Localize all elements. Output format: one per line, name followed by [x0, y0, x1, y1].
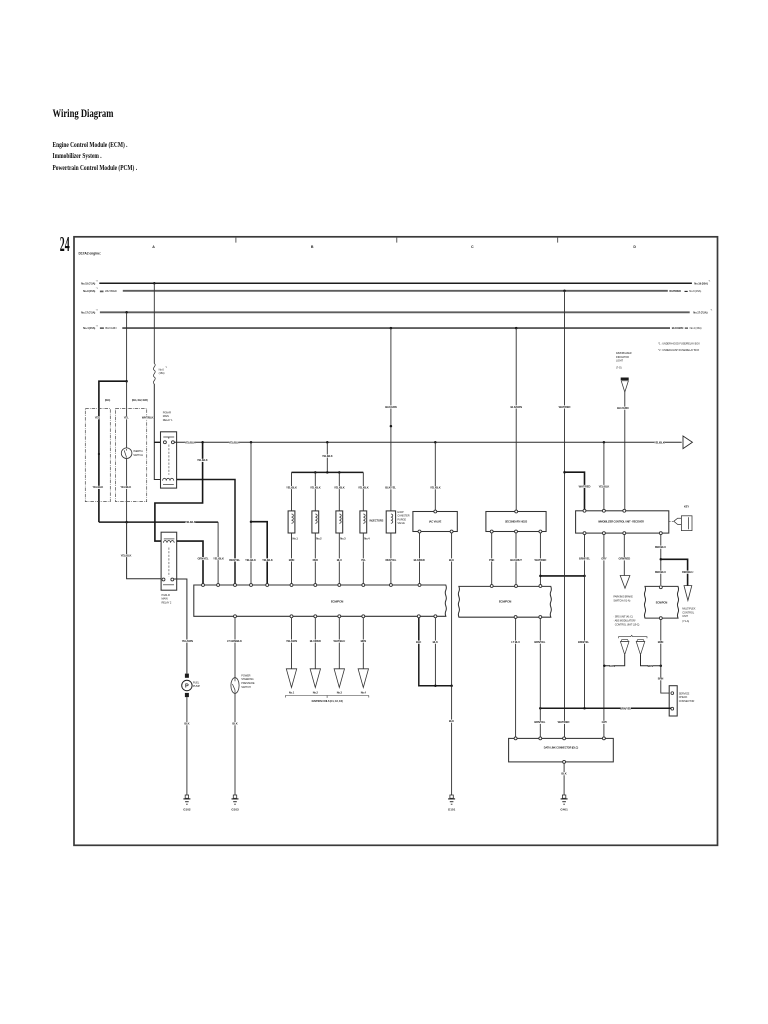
svg-text:*2 : UNDER-DASH FUSE/RELAY B: *2 : UNDER-DASH FUSE/RELAY BOX [658, 348, 699, 352]
svg-text:PGM-FI: PGM-FI [162, 593, 171, 597]
wire label YEL/BLK on y522 [185, 521, 195, 524]
svg-text:BRN: BRN [289, 558, 295, 562]
junction x564 y472 [563, 471, 566, 474]
svg-text:STEERING: STEERING [241, 677, 253, 681]
fuel pump connector bottom [185, 693, 189, 697]
wire DLC to ground [563, 763, 565, 795]
wire color RED inj No.2 [313, 558, 317, 561]
wire ECM1 to ignition coil No.2 [314, 618, 316, 669]
wire tee to relay1 contact [154, 441, 163, 443]
wire color YEL inj No.4 [361, 558, 365, 561]
wire color BLU inj No.3 [337, 558, 341, 561]
ECM3 top pin [659, 586, 662, 589]
wire color RED/BLU b [683, 571, 693, 574]
wire color RED/YEL [230, 558, 240, 561]
indicator connector bar [621, 378, 629, 381]
wire corner left thick [99, 381, 127, 522]
wire color BLK/RED [414, 558, 424, 561]
ECM1 top pin 7 [314, 584, 317, 587]
wire main YEL/BLK line [174, 441, 681, 443]
immo pin bottom 2 [602, 532, 605, 535]
SRS arrow connector [621, 640, 628, 642]
svg-text:SWITCH: SWITCH [241, 685, 251, 689]
wire x251 down to ECM [250, 442, 252, 584]
DLC pin 1 [514, 737, 517, 740]
svg-text:RED: RED [313, 558, 318, 562]
wire HO2S out BLK/WHT [515, 533, 517, 585]
wire bus3 down to corner [126, 312, 128, 381]
svg-text:YEL/BLK: YEL/BLK [121, 553, 132, 557]
wire thick splice to relay2 coil [155, 442, 203, 541]
ECM1 top pin 6 [290, 584, 293, 587]
junction inertia y522 [125, 521, 128, 524]
bus line No.9 WHT/RED [123, 290, 668, 292]
svg-text:PURGE: PURGE [397, 517, 406, 521]
svg-text:INJECTORS: INJECTORS [370, 519, 384, 523]
svg-text:YEL/BLK: YEL/BLK [229, 440, 240, 444]
wire color YEL/BLK x218 [213, 557, 223, 560]
svg-text:Wiring Diagram: Wiring Diagram [53, 108, 114, 120]
svg-text:MAIN: MAIN [162, 597, 168, 601]
svg-text:BRN/YEL: BRN/YEL [579, 557, 590, 561]
svg-text:RED/BLU: RED/BLU [682, 570, 693, 574]
svg-text:MULTIPLEX: MULTIPLEX [682, 607, 695, 611]
wire indicator down [624, 392, 626, 509]
ECM/PCM box 2 [458, 586, 551, 617]
wire color YEL/BLK x251 [245, 558, 255, 561]
service check pin 2 [671, 707, 674, 710]
wire color BRN/YEL immo 2 [578, 641, 588, 644]
svg-text:No.2: No.2 [313, 691, 319, 695]
svg-text:D: D [633, 245, 636, 249]
junction main x202.6 [201, 441, 204, 444]
svg-text:BLU/RED: BLU/RED [310, 639, 321, 643]
ECM3 bottom pin [659, 617, 662, 620]
section tick 3 [557, 238, 559, 243]
svg-text:BLK/GRN: BLK/GRN [510, 405, 522, 409]
wire color YEL/BLK x126 [121, 554, 131, 557]
wire ECM1 to ignition coil No.3 [338, 618, 340, 669]
injector No.4 coil [363, 514, 365, 523]
ECM1 top pin 11 [418, 584, 421, 587]
inertia switch lever [124, 449, 126, 458]
wire color BRN 2 [658, 677, 662, 680]
svg-text:RED/YEL: RED/YEL [229, 558, 240, 562]
svg-text:B: B [311, 245, 314, 249]
ignition coil No.2 arrow [310, 669, 320, 688]
svg-text:BLK/WHT: BLK/WHT [510, 558, 522, 562]
svg-text:No.4 (15A): No.4 (15A) [83, 326, 95, 330]
IAC pin bottom left [418, 530, 421, 533]
svg-text:INERTIA: INERTIA [133, 449, 143, 453]
svg-text:GRY: GRY [602, 720, 608, 724]
wire color YEL/GRN [286, 640, 296, 643]
junction splice right [583, 575, 586, 578]
inertia switch circle [121, 448, 132, 459]
svg-text:YEL: YEL [361, 558, 366, 562]
ECM1 top pin 8 [338, 584, 341, 587]
IAC pin top [434, 510, 437, 513]
ECM2 bottom pin 1 [514, 616, 517, 619]
wire color YEL/BLK inj No.4 [358, 486, 368, 489]
svg-text:WHT/RED: WHT/RED [559, 405, 571, 409]
DLC pin bottom [563, 760, 566, 763]
svg-text:YEL: YEL [95, 416, 100, 420]
relay2 coil [163, 541, 174, 543]
wire color YEL/BLK inj No.1 [286, 486, 296, 489]
PSP switch ellipse [231, 678, 239, 694]
svg-text:LT GRN/BLK: LT GRN/BLK [227, 639, 242, 643]
injector No.3 coil [339, 514, 341, 523]
key symbol inner [688, 517, 690, 529]
junction BLK merge 2 [450, 685, 453, 688]
svg-text:ECM/PCM: ECM/PCM [331, 599, 344, 603]
svg-text:RED/YEL: RED/YEL [385, 558, 396, 562]
wire evap out [390, 533, 392, 584]
relay1 dashed link [168, 445, 170, 475]
svg-text:YEL/BLK: YEL/BLK [358, 485, 369, 489]
injector No.2 box [312, 511, 319, 533]
wire y522 drop to ECM pin 2 [217, 522, 219, 584]
junction bus2 x564.5 [563, 290, 566, 293]
junction bus4 x390.9 [390, 327, 393, 330]
ECM2 top pin 1 [490, 585, 493, 588]
svg-text:· ABS MODULATOR/: · ABS MODULATOR/ [613, 620, 635, 623]
svg-text:*1 : UNDER-HOOD FUSE/RELAY B: *1 : UNDER-HOOD FUSE/RELAY BOX [658, 341, 700, 345]
wire relay2 contact to fuel pump [174, 579, 187, 674]
relay1 contact bar [163, 437, 174, 439]
svg-text:ECM/PCM: ECM/PCM [499, 599, 512, 603]
bus line No.15 hot in ON [99, 282, 692, 284]
svg-text:YEL/BLK: YEL/BLK [262, 558, 273, 562]
wire GRN/RED to parking brake [623, 535, 625, 576]
wire color LT GRN/BLK [227, 640, 242, 643]
immo pin top 1 [583, 509, 586, 512]
svg-text:WHT/BLK: WHT/BLK [142, 416, 154, 420]
svg-text:No.17 (7.5A): No.17 (7.5A) [81, 310, 95, 314]
wire color YEL/GRN [182, 640, 192, 643]
ignition coil No.4 arrow [358, 669, 368, 688]
ECM1 top pin 1 [202, 584, 205, 587]
injector No.1 box [288, 511, 295, 533]
ignition coil No.1 arrow [286, 669, 296, 688]
fuel pump connector top [185, 674, 189, 678]
wire color BLK fuel pump [185, 722, 189, 725]
svg-text:BLU: BLU [337, 558, 342, 562]
wire color YEL/BLK x267 [262, 558, 272, 561]
ignition coil No.3 arrow [334, 669, 344, 688]
svg-text:(Y1-A): (Y1-A) [682, 619, 689, 623]
wire color GRN [610, 665, 614, 668]
wire ECM1 BLK b [434, 618, 436, 686]
svg-text:WHT/RED: WHT/RED [535, 558, 547, 562]
DLC pin 2 [539, 737, 542, 740]
svg-text:RED/BLU: RED/BLU [655, 545, 666, 549]
svg-text:No.4: No.4 [364, 536, 370, 540]
wire color PNK [490, 558, 494, 561]
wire color GRN/YEL [198, 557, 208, 560]
wire label YEL/BLK main 1 [185, 441, 195, 444]
wire color BRN inj No.1 [289, 558, 293, 561]
svg-text:MAIN: MAIN [163, 414, 169, 418]
junction main x327.3 [326, 441, 329, 444]
wire label YEL/BLK main 3 [654, 441, 664, 444]
junction BRN/YEL a [539, 707, 542, 710]
wire color BLU/RED [310, 640, 320, 643]
wire label BRN/YEL on horizontal [621, 707, 631, 710]
wire evap down [390, 328, 392, 511]
wire horizontal y522 [99, 521, 218, 523]
junction bus1 x154.3 [153, 282, 156, 285]
junction splice left [539, 575, 542, 578]
wire color YEL box2 [124, 416, 128, 419]
wire splice thick to x267 [251, 522, 267, 585]
svg-text:BLK/GRN: BLK/GRN [105, 326, 116, 330]
SRS ABS bracket [619, 635, 648, 638]
wire ECM1 to ignition coil No.4 [362, 618, 364, 669]
svg-text:CHECK: CHECK [679, 695, 688, 699]
ECM1 top pin 9 [362, 584, 365, 587]
svg-text:IGNITION COILS (C1, C2, C3): IGNITION COILS (C1, C2, C3) [312, 700, 343, 703]
wire color BRN [361, 640, 365, 643]
junction T-bar b [326, 471, 329, 474]
wire x327 down to T-bar [326, 442, 328, 472]
wire color BLK PSP [233, 722, 237, 725]
svg-text:YEL/BLK: YEL/BLK [197, 458, 208, 462]
svg-text:BRN/YEL: BRN/YEL [534, 640, 545, 644]
svg-text:BLK: BLK [449, 719, 454, 723]
wire injector feed No.1 [291, 472, 293, 511]
wire color RED/BLU [655, 546, 665, 549]
svg-text:No.4 (15A): No.4 (15A) [690, 326, 702, 330]
wire color YEL/BLK box2 [121, 486, 131, 489]
svg-text:YEL/BLK: YEL/BLK [120, 485, 131, 489]
wire color BLK/GRN HO2S [511, 405, 521, 408]
svg-text:No.9 (15A): No.9 (15A) [83, 289, 95, 293]
wire branch to multiplex [661, 559, 688, 585]
wire fuel pump to ground [186, 697, 188, 795]
ECM1 top pin 5 [266, 584, 269, 587]
svg-text:INDICATOR: INDICATOR [616, 355, 629, 359]
svg-text:LT BLU: LT BLU [511, 640, 520, 644]
svg-text:POWER: POWER [241, 673, 250, 677]
svg-text:BRN/YEL: BRN/YEL [620, 706, 631, 710]
immo pin bottom 3 [623, 532, 626, 535]
wire color RED/YEL evap [386, 558, 396, 561]
wire IAC out BLK long [451, 533, 453, 686]
injector No.4 box [360, 511, 367, 533]
fuel pump motor circle [182, 680, 192, 690]
svg-text:SWITCH: SWITCH [133, 453, 143, 457]
svg-text:BRN/YEL: BRN/YEL [534, 720, 545, 724]
wire color YEL box1 [95, 416, 99, 419]
svg-text:G103: G103 [231, 808, 239, 812]
relay2 coil bar [164, 538, 175, 540]
immobilizer control unit box [576, 511, 669, 533]
svg-text:(7-G): (7-G) [616, 365, 622, 369]
wire color WHT/BLK [143, 416, 153, 419]
wire color GRN/RED [619, 557, 629, 560]
wire GRY immo down [603, 535, 605, 737]
relay2 dashed link [168, 548, 170, 577]
svg-text:YEL/BLK: YEL/BLK [213, 556, 224, 560]
wire RED/BLU immo down [660, 535, 662, 585]
svg-text:LIGHT: LIGHT [616, 359, 624, 363]
svg-text:Engine Control Module (ECM) .: Engine Control Module (ECM) . [53, 141, 128, 149]
svg-text:WHT/BLU: WHT/BLU [334, 639, 346, 643]
junction T-bar a [314, 471, 317, 474]
junction main x251 [250, 441, 253, 444]
svg-text:WHT/RED: WHT/RED [669, 289, 681, 293]
HO2S pin bottom 3 [539, 530, 542, 533]
svg-text:YEL/BLK: YEL/BLK [92, 485, 103, 489]
ECM1 top pin 10 [389, 584, 392, 587]
svg-text:EVAP: EVAP [397, 510, 404, 514]
wire injector feed No.3 [338, 472, 340, 511]
svg-text:RED/BLU: RED/BLU [655, 570, 666, 574]
svg-text:No.3: No.3 [340, 536, 346, 540]
fuse label No.9 right [685, 290, 688, 292]
wire branch to immobilizer [565, 472, 585, 509]
wire IAC out BLK/RED [419, 533, 421, 584]
svg-text:CONTROL UNIT (19-C): CONTROL UNIT (19-C) [615, 624, 640, 627]
relay1 contact pin left [163, 441, 166, 444]
svg-text:G101: G101 [448, 808, 456, 812]
svg-text:YEL/BLK: YEL/BLK [286, 485, 297, 489]
wire SRS arrow to GRY splice [604, 655, 624, 666]
SRS arrow [620, 642, 629, 655]
svg-text:DATA LINK CONNECTOR (DLC): DATA LINK CONNECTOR (DLC) [544, 746, 579, 749]
ABS arrow connector [637, 640, 644, 642]
wire color BLK dlc [562, 772, 566, 775]
svg-text:BLK: BLK [433, 640, 438, 644]
svg-text:GRY: GRY [601, 557, 607, 561]
wire color YEL/BLK x202 [197, 459, 207, 462]
svg-text:No.3: No.3 [337, 691, 343, 695]
svg-text:PUMP: PUMP [193, 684, 200, 688]
wire injector feed No.2 [314, 472, 316, 511]
junction main x435.3 [434, 441, 437, 444]
svg-text:YEL/BLK: YEL/BLK [245, 558, 256, 562]
fuse label No.4 right [685, 327, 688, 329]
ground G102 [183, 795, 191, 812]
svg-text:BLK: BLK [416, 640, 421, 644]
arrow to next page [683, 436, 692, 449]
ground G101 [448, 795, 456, 812]
wire color BRN/YEL 3 [535, 721, 545, 724]
junction bus3 x126.6 [125, 311, 128, 314]
junction BRN splice [660, 665, 663, 668]
junction x251 y521.7 [250, 520, 253, 523]
wire color GRY 2 [602, 721, 606, 724]
wire injector out No.4 [362, 533, 364, 584]
immo pin top 3 [623, 509, 626, 512]
svg-text:KEY: KEY [684, 504, 689, 508]
wire WHT/RED long vertical [564, 291, 566, 737]
junction RED/BLU [660, 558, 663, 561]
relay2 contact pin left [162, 578, 165, 581]
ECM1 bottom pin 4 [338, 615, 341, 618]
wire injector feed No.4 [362, 472, 364, 511]
wire color BRN/YEL immo [579, 557, 589, 560]
svg-text:WHT/RED: WHT/RED [105, 289, 117, 293]
wire color BLK/GRN left [100, 327, 104, 329]
service check connector box [669, 686, 677, 716]
wire ECM1 BLK a [419, 618, 452, 686]
svg-text:BRN: BRN [361, 639, 367, 643]
ECM1 top pin 3 [234, 584, 237, 587]
wire color WHT/RED HO2S [535, 558, 545, 561]
IAC pin bottom right [450, 530, 453, 533]
wire color BLK/GRN evap [386, 405, 396, 408]
relay1 coil [163, 478, 174, 480]
svg-text:IAC VALVE: IAC VALVE [429, 520, 442, 524]
wire color YEL/BLK IAC [430, 486, 440, 489]
svg-text:(IG1, IG2, IGR): (IG1, IG2, IGR) [132, 398, 148, 402]
wire inertia branch down to relay2 [127, 522, 162, 579]
wire HO2S out PNK [491, 533, 493, 585]
wire color BLK/WHT [511, 558, 521, 561]
svg-text:No.6: No.6 [159, 367, 165, 371]
svg-text:No.4: No.4 [361, 691, 367, 695]
wire color YEL/BLK x327 [322, 455, 332, 458]
svg-text:No.19 (50A): No.19 (50A) [694, 281, 708, 285]
svg-text:ECM/PCM: ECM/PCM [656, 600, 667, 604]
wire color BLK b [433, 641, 437, 644]
svg-text:GRN: GRN [609, 664, 615, 668]
svg-text:WHT/RED: WHT/RED [579, 484, 591, 488]
secondary HO2S box [486, 512, 546, 532]
wire injector out No.1 [291, 533, 293, 584]
svg-text:BRN: BRN [648, 664, 654, 668]
svg-text:RELAY 1: RELAY 1 [163, 418, 173, 422]
svg-text:Immobilizer System .: Immobilizer System . [53, 152, 102, 160]
immo pin bottom 4 [659, 532, 662, 535]
immo pin top 2 [602, 509, 605, 512]
svg-text:RELAY 2: RELAY 2 [162, 601, 172, 605]
svg-text:No.1: No.1 [289, 691, 295, 695]
svg-text:BRN: BRN [658, 677, 664, 681]
key dashed link [669, 520, 673, 522]
indicator arrow [621, 381, 628, 392]
svg-text:Powertrain Control Module (PCM: Powertrain Control Module (PCM) . [53, 164, 138, 172]
svg-text:SECONDARY HO2S: SECONDARY HO2S [505, 520, 528, 524]
svg-text:YEL/BLK: YEL/BLK [185, 440, 196, 444]
wire IAC down [434, 442, 436, 510]
ECM2 top pin 3 [539, 585, 542, 588]
svg-text:FUEL: FUEL [193, 680, 200, 684]
svg-text:No.17 (7.5A): No.17 (7.5A) [693, 310, 707, 314]
svg-text:BLK/GRN: BLK/GRN [672, 326, 684, 330]
junction bus4 x516.2 [515, 327, 518, 330]
ECM2 top pin 2 [515, 585, 518, 588]
wire ABS arrow to BRN splice [641, 655, 661, 666]
svg-text:PARKING BRAKE: PARKING BRAKE [613, 595, 633, 599]
wire color YEL/BLK inj No.2 [310, 486, 320, 489]
svg-text:CONNECTOR: CONNECTOR [679, 699, 695, 703]
svg-text:D17A2 engine:: D17A2 engine: [79, 252, 101, 256]
EVAP valve coil [391, 514, 393, 523]
wire color YEL/BLK box1 [93, 486, 103, 489]
immo pin bottom 1 [583, 532, 586, 535]
wire color BLU/GRN [618, 407, 628, 410]
ECM/PCM box 1 [194, 585, 447, 616]
junction T-bar c [338, 471, 341, 474]
splice evap [390, 425, 393, 428]
svg-text:BLK: BLK [561, 772, 566, 776]
svg-text:BRN/YEL: BRN/YEL [578, 640, 589, 644]
wire splice WHT/RED to BRN/YEL [540, 575, 584, 577]
